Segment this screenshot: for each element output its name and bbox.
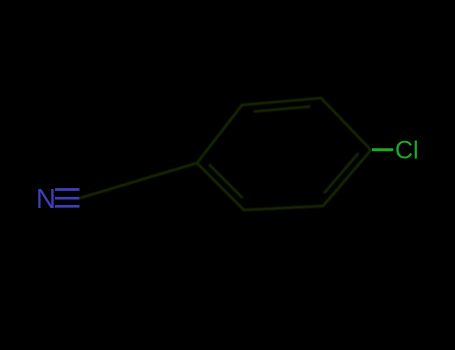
svg-text:N: N	[36, 183, 56, 214]
svg-text:Cl: Cl	[395, 137, 419, 165]
